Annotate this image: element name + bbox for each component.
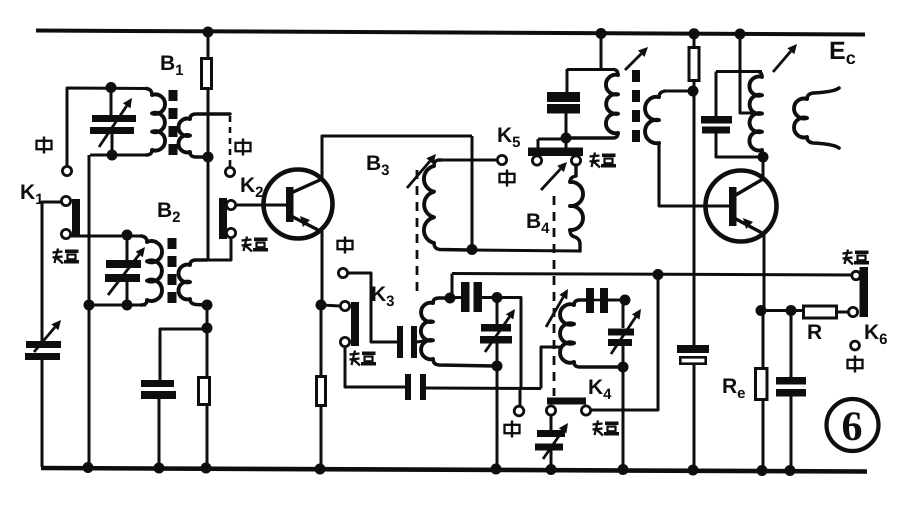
node K4 top right — [620, 295, 631, 306]
node B1 bottom varcap tap — [107, 150, 118, 161]
inductor B4 winding — [570, 165, 583, 251]
arrow output variable — [773, 44, 797, 72]
wire collector line down x472 — [471, 136, 474, 249]
wire K2 bottom to B2 secondary — [208, 238, 231, 260]
wire B2 bottom — [89, 304, 146, 307]
node B2 secondary bottom — [202, 300, 213, 311]
label naka K3 — [338, 237, 353, 254]
switch K6 contact top — [852, 271, 860, 279]
arrow K5 gang — [541, 162, 567, 190]
core B2 dashes — [168, 238, 177, 303]
wire output cap bottom lead — [716, 133, 760, 157]
label R — [807, 321, 822, 344]
wire B1 varcap bottom lead — [111, 134, 114, 155]
switch K1 contact bottom — [61, 229, 70, 238]
terminal naka circle K5 — [497, 155, 506, 164]
label K4 — [588, 376, 612, 403]
node top rail junction x601 — [596, 28, 607, 39]
node ground rail x763 — [757, 465, 768, 476]
switch K1 pole bar — [72, 199, 80, 237]
wire osc top link — [567, 68, 614, 71]
arrow osc variable — [625, 47, 648, 70]
resistor middle body — [689, 48, 699, 81]
wire Q1 emitter down — [321, 231, 324, 305]
inductor B2 primary — [141, 236, 162, 305]
transistor Q1 circle — [264, 170, 333, 239]
wire K3 bottom contact down — [345, 347, 405, 387]
switch K2 contact bottom — [226, 228, 235, 237]
node ground rail x791 — [785, 465, 796, 476]
wire rail to resistor B1 — [207, 32, 210, 58]
wire output cap top lead — [715, 72, 718, 117]
arrow K3 trimmer — [485, 309, 515, 352]
resistor emitter Q1 chain body — [199, 378, 210, 405]
wire rail to primary tap — [740, 34, 753, 113]
node top rail junction x694 — [689, 28, 700, 39]
resistor Re body — [756, 369, 768, 400]
svg-text:6: 6 — [842, 404, 863, 450]
switch K5 contact left — [532, 156, 541, 165]
transistor Q2 collector stroke — [734, 179, 763, 196]
wire Re to ground — [762, 401, 765, 469]
capacitor K3 top series plates — [461, 282, 482, 312]
resistor Q1 emitter lower body — [317, 377, 326, 406]
wire K3 naka lead — [348, 273, 397, 342]
wire bypass cap branch — [160, 329, 207, 380]
wire osc secondary to Q2 base — [659, 200, 730, 206]
inductor B2 secondary — [179, 260, 207, 305]
capacitor emitter bypass plates — [776, 377, 806, 397]
node avc k4 tap — [653, 269, 664, 280]
label tan K2 — [242, 237, 269, 252]
wire resistor to ground x321 — [320, 407, 323, 468]
transistor Q2 emitter stroke — [734, 218, 764, 234]
wire rail to osc top — [600, 33, 603, 69]
terminal naka circle K6 — [851, 341, 860, 350]
wire K3 top edge — [450, 296, 497, 299]
switch K2 contact top — [226, 200, 235, 209]
label K6 — [864, 321, 888, 348]
node B2 bypass tap — [202, 323, 213, 334]
wire primary top link — [716, 70, 762, 73]
switch K1 contact top — [61, 196, 70, 205]
node K3 bottom junction — [492, 361, 503, 372]
node ground rail x89 — [83, 462, 94, 473]
terminal naka circle B1 — [62, 166, 71, 175]
label K3 — [371, 283, 395, 310]
node ground rail x551 — [546, 464, 557, 475]
svg-text:R: R — [807, 321, 822, 344]
capacitor K4 top series plates — [586, 288, 608, 313]
transistor Q1 emitter stroke — [291, 216, 322, 232]
wire electrolytic to ground — [693, 365, 696, 469]
wire padder top lead — [566, 69, 569, 92]
label B2 — [157, 199, 181, 226]
arrow B3 variable — [407, 154, 436, 188]
core dashed line B3 gang — [416, 170, 419, 293]
label tan K3 — [350, 351, 377, 366]
wire emitter junction to R — [761, 309, 802, 312]
wire K4 top edge — [594, 299, 625, 302]
wire B1 top — [67, 88, 146, 167]
arrow B1 variable — [99, 98, 132, 147]
node B2 top varcap tap — [122, 230, 133, 241]
wire B2 secondary to resistor — [206, 305, 209, 376]
switch K4 contact left — [546, 406, 555, 415]
node B1 secondary bottom — [203, 152, 214, 163]
wire top supply rail Ec — [36, 31, 865, 35]
wire K5 to B3 top — [441, 159, 498, 162]
label tan K4 — [593, 421, 620, 436]
wire avc line y274 — [452, 274, 855, 276]
node B1 top varcap tap — [106, 82, 117, 93]
switch K6 pole bar — [860, 267, 869, 317]
switch K3 contact bottom — [340, 337, 349, 346]
wire B1 bottom — [90, 154, 146, 157]
wire link up to K4 coil — [541, 347, 561, 389]
wire B2 varcap leads — [126, 236, 129, 305]
capacitor antenna variable plates — [25, 341, 61, 360]
wire avc left corner down — [451, 274, 454, 298]
label naka K5 — [500, 170, 515, 187]
capacitor output plates — [701, 116, 732, 134]
capacitor B1 variable plates — [90, 115, 136, 134]
label K2 — [240, 174, 264, 201]
node collector junction — [758, 152, 769, 163]
transistor Q2 base bar — [729, 187, 737, 226]
wire emitter junction to resistor — [320, 305, 323, 375]
label B1 — [160, 52, 184, 79]
node ground rail x207 — [201, 463, 212, 474]
wire Q2 emitter down — [763, 233, 766, 311]
node ground rail x623 — [618, 464, 629, 475]
wire K3 bottom to ground — [496, 366, 499, 468]
node emitter junction x761 — [756, 305, 767, 316]
node B2 bottom varcap tap — [122, 300, 133, 311]
figure number circled 6 — [827, 399, 879, 451]
wire R to K6 — [838, 311, 849, 314]
wire naka lower stub — [519, 388, 522, 406]
wire resistor to ground — [206, 406, 209, 467]
label B4 — [526, 210, 550, 237]
inductor K4 coil — [560, 300, 622, 367]
switch K4 pole bar — [547, 398, 586, 405]
node K4 bottom junction — [618, 362, 629, 373]
wire K4 bottom to ground — [622, 367, 625, 469]
wire K3 trimmer leads — [496, 298, 499, 366]
label Re — [722, 375, 746, 402]
label tan K5 — [590, 153, 617, 168]
wire K4 right box — [591, 274, 658, 410]
arrow K4 trimmer — [611, 309, 641, 354]
wire antenna vertical — [42, 202, 62, 341]
switch K3 contact top — [340, 301, 349, 310]
core B1 dashes — [169, 90, 178, 155]
capacitor K4 trimmer plates — [608, 329, 634, 347]
wire bottom ground rail — [41, 468, 867, 472]
node ground rail x694 — [688, 465, 699, 476]
wire Q2 collector up — [762, 157, 765, 180]
label tan K1 — [53, 249, 80, 264]
switch K5 contact right — [571, 156, 580, 165]
wire cap to coil tap — [417, 341, 424, 342]
wire resistor B1 down — [207, 89, 210, 260]
capacitor bypass B2 plates — [141, 380, 176, 399]
wire K2 to Q1 base — [235, 204, 287, 207]
inductor osc primary — [567, 70, 618, 139]
wire antenna to ground rail — [41, 360, 44, 467]
terminal naka circle lower — [514, 406, 524, 416]
inductor B1 primary — [146, 89, 165, 156]
capacitor K3 trimmer plates — [480, 324, 512, 344]
wire junction stub to bar — [538, 138, 567, 148]
wire emitter to Re — [762, 311, 765, 367]
inductor osc secondary — [645, 91, 665, 200]
wire K4 trimmer leads — [622, 300, 625, 367]
wire K3 top to naka drop — [497, 298, 521, 389]
wire osc secondary top — [665, 90, 694, 93]
node B3 bottom junction — [467, 244, 478, 255]
wire K4 lower trimmer to ground — [550, 450, 553, 469]
resistor R body — [804, 306, 837, 318]
capacitor electrolytic plate top — [677, 345, 709, 353]
label naka B1 — [37, 137, 52, 154]
arrow gang middle — [546, 289, 568, 327]
node top rail junction x208 — [203, 27, 214, 38]
arrow antenna variable — [34, 320, 61, 352]
wire padder bottom lead — [565, 113, 568, 138]
wire bypass to ground — [790, 396, 793, 470]
wire B3 bottom line — [472, 250, 580, 251]
label K5 — [497, 124, 521, 151]
switch K3 pole bar — [351, 302, 359, 346]
capacitor K4 lower trimmer plates — [535, 430, 565, 451]
core dashed line K5-K4 gang — [553, 196, 556, 396]
wire Q1 collector up and right — [322, 136, 472, 180]
node B2 bottom left — [84, 300, 95, 311]
wire bypass cap to ground — [158, 399, 161, 467]
resistor B1 body — [202, 59, 212, 89]
node ground rail x159 — [154, 463, 165, 474]
wire lower link line — [426, 387, 541, 391]
node K3 coil top right — [492, 292, 503, 303]
capacitor K3 lower series plates — [405, 374, 426, 400]
node ground rail x497 — [491, 464, 502, 475]
capacitor K3 series plates — [397, 326, 417, 358]
wire emitter junction to K3 — [321, 305, 340, 306]
node resistor bottom junction — [688, 86, 699, 97]
capacitor electrolytic plate bottom — [680, 357, 705, 363]
transistor Q2 circle — [706, 171, 777, 242]
wire K4 left contact down — [550, 415, 553, 430]
switch K5 pole bar — [528, 148, 583, 157]
capacitor osc padder plates — [547, 92, 580, 114]
wire middle resistor down — [693, 82, 696, 345]
wire B1 bottom to ground vertical — [88, 155, 91, 467]
node R tap x791 — [786, 305, 797, 316]
node ground rail x321 — [315, 464, 326, 475]
node K3 coil top left — [445, 293, 456, 304]
transistor Q1 collector stroke — [291, 179, 322, 193]
terminal naka circle K2 — [225, 167, 234, 176]
inductor output primary — [749, 72, 763, 158]
arrow B2 variable — [108, 247, 145, 295]
label Ec — [829, 37, 856, 68]
node top rail junction x740 — [735, 29, 746, 40]
inductor output secondary — [794, 88, 839, 148]
label naka lower — [505, 421, 520, 438]
capacitor B2 variable plates — [105, 260, 141, 282]
node Q1 emitter junction — [316, 300, 327, 311]
switch K6 contact bottom — [848, 307, 857, 316]
arrow K4 lower trimmer — [543, 423, 568, 459]
switch K2 pole bar — [219, 198, 227, 239]
node osc cap junction — [561, 133, 572, 144]
label K1 — [20, 181, 44, 208]
label tan K6 — [843, 250, 870, 265]
wire dashed drop to K2 naka — [229, 116, 232, 167]
label B3 — [366, 152, 390, 179]
transistor Q1 base bar — [286, 187, 294, 222]
inductor B3 winding — [424, 160, 470, 250]
wire R tap down to cap — [790, 311, 793, 377]
wire K1 bottom contact to B2 — [71, 235, 141, 238]
wire rail to middle resistor — [693, 34, 696, 47]
switch K4 contact right — [581, 406, 590, 415]
label naka K2 — [236, 139, 251, 156]
label naka K6 — [848, 356, 863, 373]
inductor K3 coil — [421, 298, 495, 366]
inductor B1 secondary — [178, 114, 230, 157]
wire B1 varcap top lead — [110, 88, 113, 115]
terminal naka circle K3 — [338, 268, 347, 277]
core osc dashes — [632, 70, 640, 142]
